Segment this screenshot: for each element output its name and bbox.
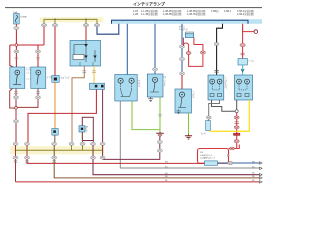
bottom band connectors top row <box>13 142 105 145</box>
wire olive bus inside bottom band <box>15 149 103 151</box>
connector on gray wire <box>206 116 211 119</box>
band through stubs <box>16 145 103 157</box>
connector on wire A x16 <box>14 50 19 53</box>
wire darkgray CL2 left pin to junction <box>236 100 238 111</box>
connector circle on blue <box>228 162 233 165</box>
fuse F1 body <box>14 14 20 25</box>
ECU inner connector blue square <box>79 126 85 132</box>
wire gray CL1 right pin <box>209 100 220 121</box>
wire brown relay to bottom band <box>72 66 84 143</box>
wire darkred switchA left bend <box>10 89 16 109</box>
connector box CB (2pin) <box>90 83 105 89</box>
wire darkred switchA down <box>15 89 17 144</box>
wire red junction down <box>236 113 238 149</box>
connector on black wire <box>215 71 219 73</box>
svg-text:4-6B-2実装回路: 4-6B-2実装回路 <box>237 12 254 16</box>
connector on red loop left y53 <box>186 52 191 55</box>
terminal diamond blue <box>260 162 263 165</box>
courtesy lamp box CL2 <box>235 75 253 100</box>
connector on black wire y56 <box>214 43 219 46</box>
wire red top extension to column <box>229 148 237 150</box>
connector on red down y117 <box>234 116 239 119</box>
wire gray CL1 left pin <box>212 100 237 111</box>
bulb L2 (lower on orange chain) <box>52 129 58 136</box>
wire red terminal stub <box>243 27 254 32</box>
wire red drop x55 to map lamp <box>54 27 56 76</box>
courtesy lamp box CL1 <box>208 75 224 100</box>
wire red relay R2 left leg <box>183 38 203 67</box>
junction node at x16 <box>15 107 18 110</box>
wire cyan to CL2 <box>242 65 244 75</box>
connector ticks below band left <box>14 161 56 162</box>
wire brown ECU down to band <box>82 132 84 143</box>
terminal diamond purple <box>260 173 263 176</box>
node stub 55 <box>54 19 56 23</box>
connector tick switchA y92 <box>14 92 18 94</box>
lamp unit box U4 <box>175 89 192 114</box>
harness band B (top blue band) <box>111 19 262 24</box>
connector on x182 wire y46 <box>179 45 184 48</box>
annotation red rounded box <box>198 149 229 164</box>
wire red straight to switch A <box>15 45 17 67</box>
wire red stub up right <box>237 145 240 149</box>
arrow mark on cyan wire <box>241 69 244 72</box>
wire red connector box left pin long loop <box>28 90 96 144</box>
ground G3 on U4 green <box>185 135 192 140</box>
wire red bottom bus <box>16 181 263 183</box>
terminal circle <box>254 30 258 34</box>
terminal diamond gray <box>260 167 263 170</box>
svg-text:ﾏｯﾌﾟﾗﾝﾌﾟ: ﾏｯﾌﾟﾗﾝﾌﾟ <box>61 76 71 80</box>
junction dot 86 <box>85 19 87 21</box>
wire yellow relay to connector box <box>93 66 95 83</box>
svg-text:4-2B: 4-2B <box>133 13 138 16</box>
connector wide on red down y134 <box>234 133 240 135</box>
connector tick on wire B <box>36 58 40 60</box>
connector ticks on brown <box>83 71 87 73</box>
svg-text:4-1-3B実装回路: 4-1-3B実装回路 <box>141 12 158 16</box>
junction box relay (integration unit) <box>70 41 101 67</box>
svg-text:5D: 5D <box>165 173 168 175</box>
wire blue band drop x182 <box>181 24 183 74</box>
connector on x182 wire y73 <box>179 72 184 75</box>
svg-text:4-3B-7B実装回路: 4-3B-7B実装回路 <box>187 12 206 16</box>
svg-text:4-5B-1: 4-5B-1 <box>224 10 232 13</box>
connector on red top edge <box>230 147 234 150</box>
relay R2 body <box>185 34 193 38</box>
ECU inner pin dot <box>81 128 83 130</box>
connector on switchA wire y121 <box>13 120 18 123</box>
wire dark red bottom from x15 <box>15 159 17 182</box>
wire purple bus from x93 <box>93 159 262 175</box>
wire royal blue band to dome lamp <box>126 24 128 75</box>
connector on yellow band at x44 <box>42 24 47 27</box>
wire yellow CL2 right pin loop <box>211 100 250 131</box>
vanity lamp box V1 <box>147 74 163 97</box>
connector on wire B x38 <box>36 50 41 53</box>
legend cluster 1 <box>133 9 254 16</box>
connector on red down y122 <box>235 122 239 124</box>
wire gray dome lamp down to bus <box>120 101 262 168</box>
svg-text:4-3B-5B実装回路: 4-3B-5B実装回路 <box>163 12 182 16</box>
connector on switchA wire y97 <box>13 96 18 99</box>
ground G2 on green net <box>156 132 164 137</box>
connector tick on wire A <box>15 58 19 60</box>
inline device box on red drop <box>238 59 247 66</box>
wire red top rail y45 <box>10 44 44 46</box>
wire red to U4 top <box>181 75 183 89</box>
connector ticks on yellow <box>92 71 96 73</box>
door switch SW-A <box>10 67 25 89</box>
connector on red drop y45 <box>240 44 245 47</box>
svg-text:DOME: DOME <box>20 17 27 19</box>
wire green vanity down to ground <box>159 97 161 132</box>
wire purple ECU right edge down to band <box>92 141 94 144</box>
connector tick switchB y92 <box>36 92 40 94</box>
harness band A (top yellow band) <box>40 17 104 22</box>
wire green dome lamp down <box>132 101 160 130</box>
wire maroon from ground G2 down to crossrail <box>103 137 160 159</box>
connector on yellow band at x86 <box>84 24 89 27</box>
bottom band connectors bottom row <box>13 156 105 159</box>
connector wedge on blue <box>219 162 221 164</box>
header rule <box>5 7 262 8</box>
connector bar on red down y127 <box>234 126 239 129</box>
junction node white circle <box>235 110 238 113</box>
wire red bus start from x27 <box>27 159 205 163</box>
connector on switchB wire y97 <box>35 96 40 99</box>
bottom harness band (yellow) <box>10 146 104 154</box>
ECU outline purple box <box>82 117 93 140</box>
wire dark from bulb L2 to band <box>54 135 56 143</box>
map lamp bulb L1 <box>52 76 59 83</box>
wire blue bus right <box>218 162 260 164</box>
wire olive bus inside yellow band <box>44 19 97 23</box>
wire green U4 down to ground <box>188 113 190 135</box>
wire navy bus inside blue band <box>112 20 249 24</box>
relay R2 hatch bar <box>185 32 193 34</box>
fusebox cyan vertical <box>206 121 211 131</box>
wire darkred switchB down <box>16 89 38 108</box>
wire orange map lamp down <box>54 82 56 128</box>
wire fuse to node <box>15 24 17 45</box>
wire red left bend to switch A <box>10 45 14 68</box>
svg-text:7.5A: 7.5A <box>13 11 18 14</box>
dome lamp box D1 <box>115 75 137 102</box>
svg-text:インテリアランプ: インテリアランプ <box>133 0 166 6</box>
wire brown bus from x54 <box>54 159 262 178</box>
ground G1 under vanity box <box>148 97 153 102</box>
wire maroon connector box right pin down <box>102 90 104 144</box>
wire royal blue band to vanity lamp <box>154 24 156 74</box>
connector wedge on red right edge <box>228 155 230 157</box>
terminal diamond red <box>260 181 263 184</box>
terminal diamond brown <box>260 177 263 180</box>
svg-text:4-5B回: 4-5B回 <box>211 9 219 13</box>
connector on vanity wire <box>152 68 157 71</box>
connector on maroon riser y141 <box>157 141 162 144</box>
wire red drop x44 to top rail <box>43 27 45 45</box>
connector on maroon riser y150 <box>157 149 162 152</box>
connector below fuse <box>14 27 19 30</box>
wire navy from connector x97 to blue band <box>97 24 119 34</box>
wire black band drop to lamp box1 <box>217 24 223 75</box>
wire red drop x86 to relay box <box>85 27 87 41</box>
svg-text:5C: 5C <box>165 167 168 169</box>
door switch SW-A annotation <box>27 70 31 79</box>
connector on yellow band at x55 <box>53 24 58 27</box>
door switch SW-B <box>31 67 46 89</box>
node stub 86 <box>85 19 87 23</box>
fusebox FL horizontal <box>205 161 218 165</box>
connector tick on green riser <box>158 115 162 117</box>
connector on red drop y54 <box>241 53 245 55</box>
svg-text:5D: 5D <box>252 173 255 175</box>
connector on red down y141 <box>234 140 239 143</box>
svg-text:5C: 5C <box>252 167 255 169</box>
junction dot 55 <box>54 19 56 21</box>
connector on x182 wire y59 <box>179 58 184 61</box>
connector on red loop right y52 <box>201 51 206 54</box>
wire red drop to switch B <box>37 45 39 67</box>
wire red band drop right <box>242 24 244 59</box>
junction circle on rail <box>15 44 18 47</box>
bus labels small <box>165 161 255 182</box>
connector on yellow band at x97 <box>95 24 100 27</box>
